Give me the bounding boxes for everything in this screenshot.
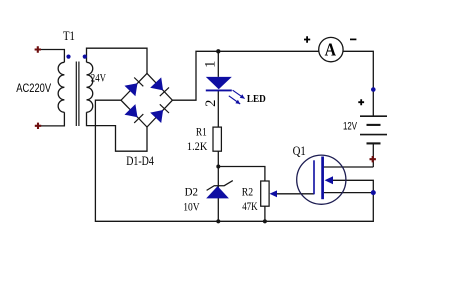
svg-text:1: 1	[202, 61, 218, 68]
svg-text:T1: T1	[63, 29, 75, 43]
svg-text:1.2K: 1.2K	[187, 139, 208, 153]
svg-text:2: 2	[203, 100, 219, 107]
svg-text:LED: LED	[247, 93, 266, 105]
svg-text:24V: 24V	[91, 71, 106, 85]
svg-text:R2: R2	[242, 185, 253, 199]
svg-text:D2: D2	[185, 185, 198, 199]
svg-text:47K: 47K	[242, 199, 258, 213]
svg-text:12V: 12V	[343, 121, 357, 133]
svg-text:Q1: Q1	[293, 144, 306, 158]
svg-text:AC220V: AC220V	[16, 81, 51, 95]
svg-text:A: A	[325, 40, 336, 60]
svg-text:D1-D4: D1-D4	[126, 154, 154, 168]
svg-text:10V: 10V	[183, 200, 200, 214]
svg-text:R1: R1	[196, 124, 207, 138]
